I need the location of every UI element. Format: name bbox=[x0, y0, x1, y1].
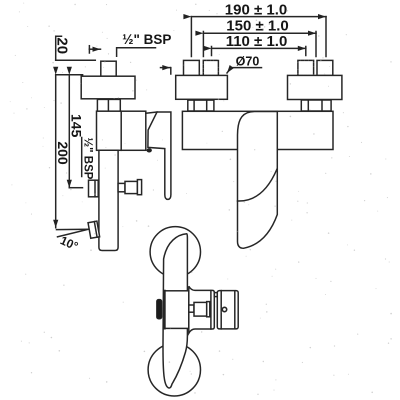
svg-text:110 ± 1.0: 110 ± 1.0 bbox=[226, 33, 288, 50]
svg-text:½" BSP: ½" BSP bbox=[82, 138, 94, 180]
svg-text:10°: 10° bbox=[58, 233, 80, 253]
svg-text:190 ± 1.0: 190 ± 1.0 bbox=[225, 1, 287, 18]
svg-text:20: 20 bbox=[54, 37, 71, 54]
svg-text:½" BSP: ½" BSP bbox=[122, 32, 171, 47]
svg-text:200: 200 bbox=[55, 141, 71, 165]
svg-text:145: 145 bbox=[69, 114, 85, 138]
svg-text:Ø70: Ø70 bbox=[236, 54, 260, 68]
